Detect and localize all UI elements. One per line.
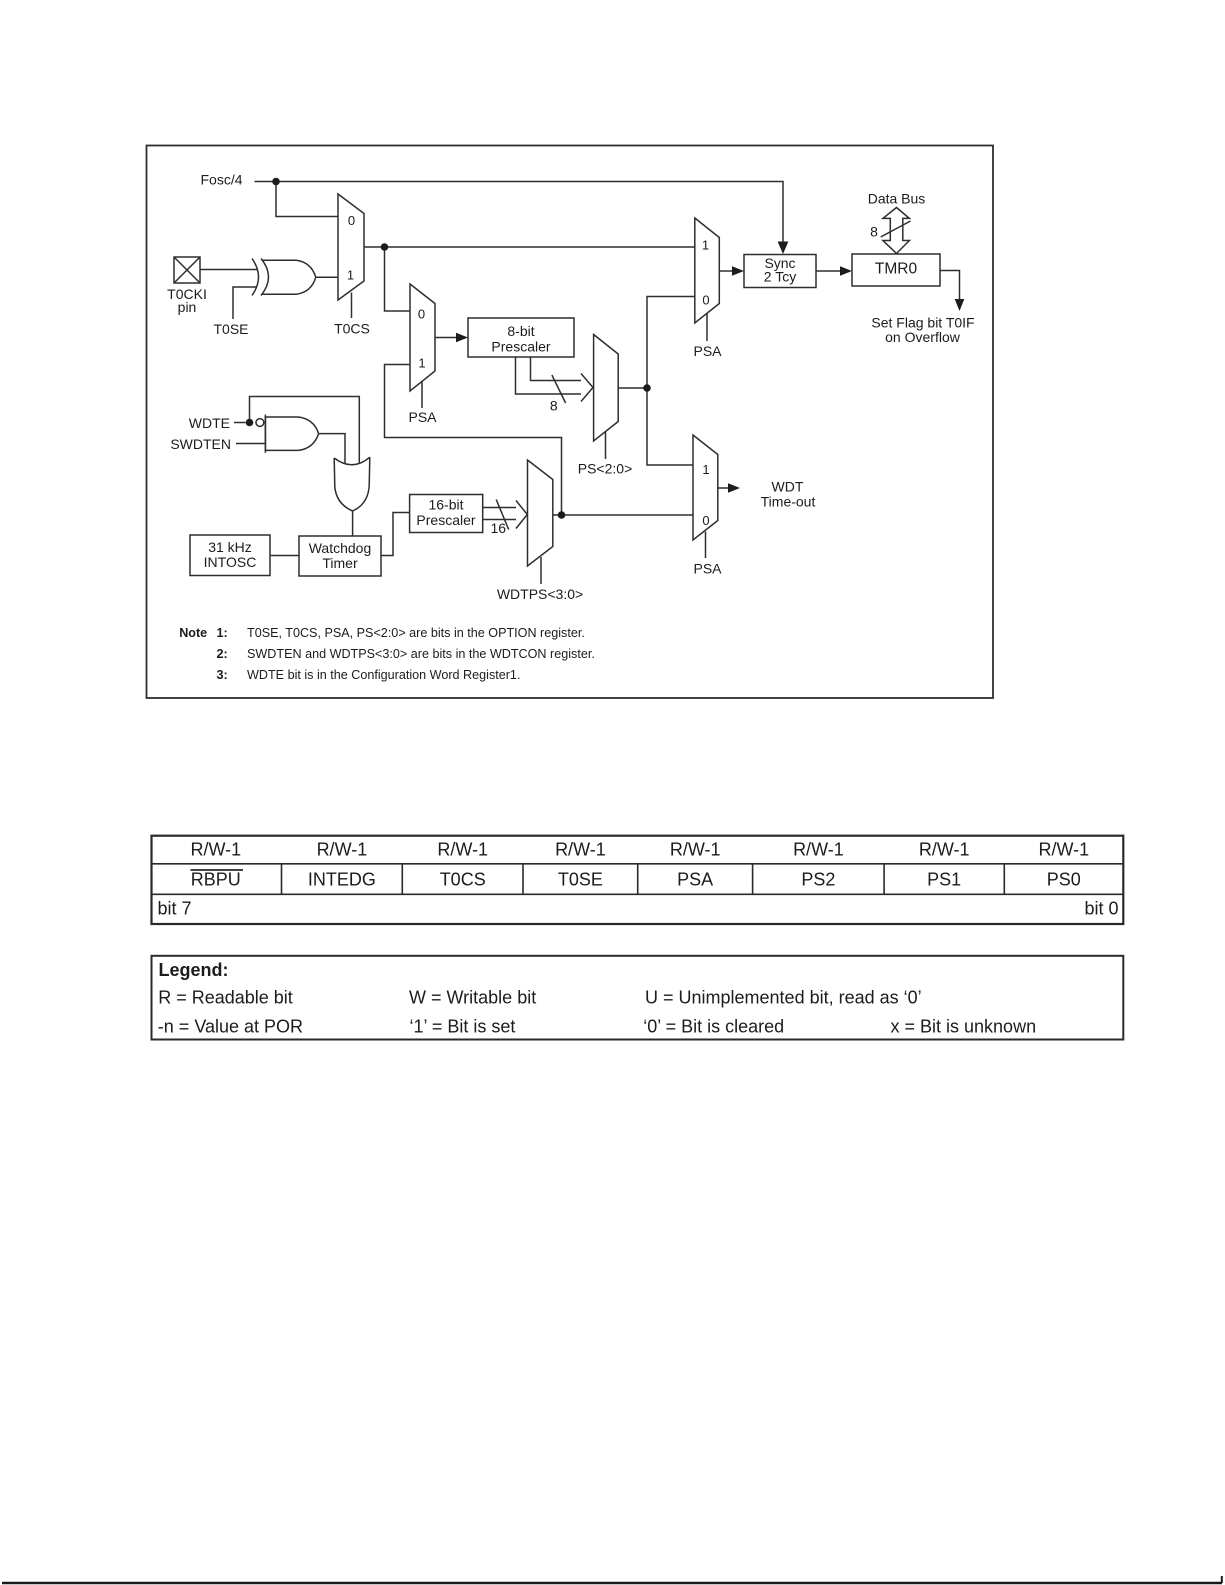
svg-text:2:: 2: [217,647,228,661]
svg-text:PS0: PS0 [1047,870,1081,890]
svg-text:Data Bus: Data Bus [868,191,926,207]
svg-text:PSA: PSA [693,343,722,359]
svg-text:R/W-1: R/W-1 [793,840,844,860]
svg-text:1: 1 [418,356,425,371]
svg-text:R/W-1: R/W-1 [1038,840,1089,860]
svg-text:16: 16 [491,520,507,536]
svg-text:PS2: PS2 [801,870,835,890]
svg-text:8: 8 [550,398,558,414]
svg-text:T0SE: T0SE [213,321,248,337]
svg-text:Prescaler: Prescaler [491,339,550,355]
svg-text:‘1’ = Bit is set: ‘1’ = Bit is set [410,1017,516,1037]
svg-text:TMR0: TMR0 [875,261,918,278]
svg-text:INTEDG: INTEDG [308,870,376,890]
svg-text:R/W-1: R/W-1 [317,840,368,860]
svg-text:U = Unimplemented bit, read as: U = Unimplemented bit, read as ‘0’ [645,988,922,1008]
svg-text:Time-out: Time-out [761,494,816,510]
svg-text:PSA: PSA [408,409,437,425]
svg-text:INTOSC: INTOSC [204,554,257,570]
svg-text:0: 0 [348,213,355,228]
svg-text:R/W-1: R/W-1 [437,840,488,860]
svg-text:R = Readable bit: R = Readable bit [158,988,293,1008]
svg-text:bit 7: bit 7 [158,899,192,919]
svg-text:16-bit: 16-bit [428,497,463,513]
svg-text:Note: Note [179,626,207,640]
svg-text:pin: pin [178,299,197,315]
svg-text:1:: 1: [217,626,228,640]
svg-text:T0CS: T0CS [334,321,370,337]
svg-text:31 kHz: 31 kHz [208,539,252,555]
svg-text:8: 8 [870,224,878,240]
svg-text:RBPU: RBPU [191,870,241,890]
svg-text:1: 1 [702,462,709,477]
svg-text:T0SE: T0SE [558,870,603,890]
svg-text:Fosc/4: Fosc/4 [200,172,242,188]
svg-text:T0SE, T0CS, PSA, PS<2:0> are b: T0SE, T0CS, PSA, PS<2:0> are bits in the… [247,626,585,640]
svg-text:PS1: PS1 [927,870,961,890]
svg-text:Prescaler: Prescaler [416,512,475,528]
svg-text:WDT: WDT [772,479,804,495]
svg-text:R/W-1: R/W-1 [555,840,606,860]
svg-text:W = Writable bit: W = Writable bit [409,988,536,1008]
svg-text:R/W-1: R/W-1 [190,840,241,860]
svg-text:SWDTEN: SWDTEN [170,436,231,452]
svg-text:0: 0 [418,307,425,322]
svg-text:‘0’ = Bit is cleared: ‘0’ = Bit is cleared [643,1017,784,1037]
svg-text:SWDTEN and WDTPS<3:0> are bits: SWDTEN and WDTPS<3:0> are bits in the WD… [247,647,595,661]
svg-text:1: 1 [347,268,354,283]
svg-text:-n = Value at POR: -n = Value at POR [158,1017,303,1037]
svg-text:WDTE: WDTE [189,415,230,431]
svg-text:Legend:: Legend: [159,960,229,980]
svg-text:3:: 3: [217,668,228,682]
svg-text:0: 0 [702,293,709,308]
svg-text:0: 0 [702,513,709,528]
svg-text:PS<2:0>: PS<2:0> [578,461,633,477]
svg-text:1: 1 [702,238,709,253]
svg-text:WDTPS<3:0>: WDTPS<3:0> [497,586,583,602]
svg-text:WDTE bit is in the Configurati: WDTE bit is in the Configuration Word Re… [247,668,520,682]
svg-text:Watchdog: Watchdog [309,540,372,556]
svg-text:T0CS: T0CS [440,870,486,890]
svg-text:R/W-1: R/W-1 [670,840,721,860]
svg-text:R/W-1: R/W-1 [919,840,970,860]
svg-text:PSA: PSA [693,561,722,577]
svg-text:8-bit: 8-bit [507,323,534,339]
svg-text:2 Tcy: 2 Tcy [764,269,796,285]
svg-text:bit 0: bit 0 [1084,899,1118,919]
svg-text:Timer: Timer [322,555,358,571]
svg-text:x = Bit is unknown: x = Bit is unknown [891,1017,1037,1037]
svg-text:on Overflow: on Overflow [885,329,961,345]
svg-text:PSA: PSA [677,870,713,890]
